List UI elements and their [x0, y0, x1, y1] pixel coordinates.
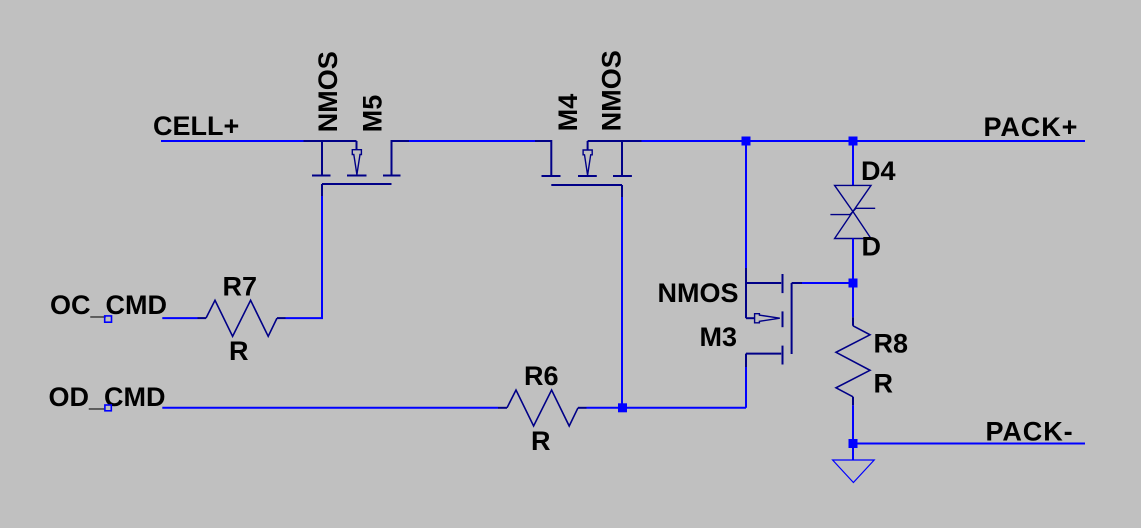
- resistor R8: [836, 326, 870, 397]
- wire OC_CMD to R7: [162, 317, 197, 319]
- svg-text:R: R: [874, 369, 894, 399]
- wire M4 source to PACK+: [642, 140, 1086, 142]
- wire OD_CMD to R6: [162, 407, 498, 409]
- wire R6 to junction: [578, 407, 587, 409]
- port marker OC_CMD: [105, 316, 112, 322]
- svg-text:M5: M5: [357, 95, 387, 133]
- junction OD line / M4 gate: [618, 403, 627, 412]
- svg-text:NMOS: NMOS: [597, 50, 627, 131]
- wire D4 cathode to node: [852, 239, 854, 280]
- wire M3 source down to OD line: [745, 367, 747, 408]
- wire PACK-: [853, 443, 1085, 445]
- wire R8 to PACK- node: [852, 397, 854, 406]
- nmos M4: [535, 140, 642, 197]
- wire junction to M3 source: [623, 407, 746, 409]
- port marker OD_CMD: [105, 405, 111, 411]
- svg-text:R: R: [531, 426, 551, 456]
- wire CELL+ to M5 drain: [161, 140, 304, 142]
- svg-text:NMOS: NMOS: [658, 278, 739, 308]
- wire rail to M3 drain: [745, 142, 747, 268]
- svg-text:OD_CMD: OD_CMD: [49, 382, 166, 412]
- resistor R7: [206, 300, 277, 336]
- junction M3 gate / D4 / R8: [849, 279, 858, 288]
- nmos M5: [304, 140, 410, 196]
- svg-text:PACK-: PACK-: [986, 417, 1074, 447]
- junction rail / M3 drain: [742, 137, 751, 146]
- junction rail / D4: [849, 137, 858, 146]
- ground symbol: [833, 460, 875, 483]
- wire M5 source to M4 drain: [409, 140, 536, 142]
- svg-text:M4: M4: [553, 94, 583, 132]
- wire M3 gate to D4/R8 node: [802, 282, 853, 284]
- wire node to R8: [852, 287, 854, 317]
- svg-text:D: D: [862, 232, 882, 262]
- svg-text:R7: R7: [223, 272, 258, 302]
- nmos M3: [746, 268, 802, 367]
- wire R7 to M5 gate: [277, 317, 286, 319]
- svg-text:R8: R8: [874, 329, 909, 359]
- svg-text:PACK+: PACK+: [984, 112, 1079, 142]
- svg-text:R: R: [229, 336, 249, 366]
- svg-text:R6: R6: [524, 361, 559, 391]
- svg-text:NMOS: NMOS: [313, 51, 343, 132]
- wire M4 gate lead: [621, 197, 623, 408]
- wire rail to D4 anode: [852, 142, 854, 185]
- ground stub: [852, 444, 854, 461]
- junction PACK- / ground: [849, 439, 858, 448]
- svg-text:CELL+: CELL+: [153, 111, 239, 141]
- diode D4 (bidirectional TVS): [830, 185, 875, 238]
- resistor R6: [507, 390, 578, 426]
- svg-text:M3: M3: [700, 322, 738, 352]
- svg-text:D4: D4: [861, 156, 896, 186]
